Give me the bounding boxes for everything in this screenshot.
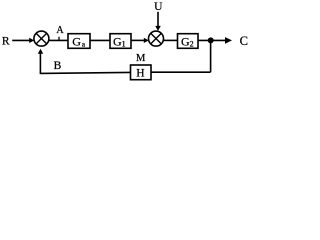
svg-text:H: H (136, 68, 144, 80)
wire block G1 to summer2 (131, 39, 145, 41)
wire junction down (210, 40, 212, 72)
wire block Ga to block G1 (90, 39, 110, 41)
block Ga box (68, 34, 90, 49)
summer1 X (36, 33, 47, 44)
svg-text:A: A (56, 25, 64, 36)
block H box (131, 65, 152, 80)
wire summer1 to block Ga (49, 39, 68, 41)
summer2 X (151, 33, 162, 44)
wire U vertical (157, 12, 159, 27)
wire feedback left segment (40, 72, 130, 73)
wire block G2 to output C (198, 39, 227, 41)
block G2 box (178, 34, 199, 49)
svg-text:R: R (2, 36, 10, 48)
arrowhead output C (225, 37, 232, 44)
node A tick (58, 37, 60, 41)
svg-text:M: M (136, 53, 146, 64)
junction dot (208, 37, 214, 43)
summer2 circle (149, 31, 164, 46)
summer1 circle (34, 31, 49, 46)
wire feedback right segment (151, 71, 211, 73)
arrowhead feedback into summer1 (38, 49, 43, 54)
wire R input (12, 39, 30, 41)
svg-text:C: C (240, 34, 248, 48)
svg-text:B: B (54, 60, 62, 72)
arrowhead into summer2 (144, 38, 149, 43)
arrowhead into summer1 (29, 38, 34, 43)
svg-text:U: U (154, 1, 163, 13)
block G1 box (110, 34, 131, 49)
arrowhead U into summer2 (155, 26, 161, 31)
wire summer2 to block G2 (163, 39, 177, 41)
wire feedback up to summer1 (39, 52, 41, 74)
